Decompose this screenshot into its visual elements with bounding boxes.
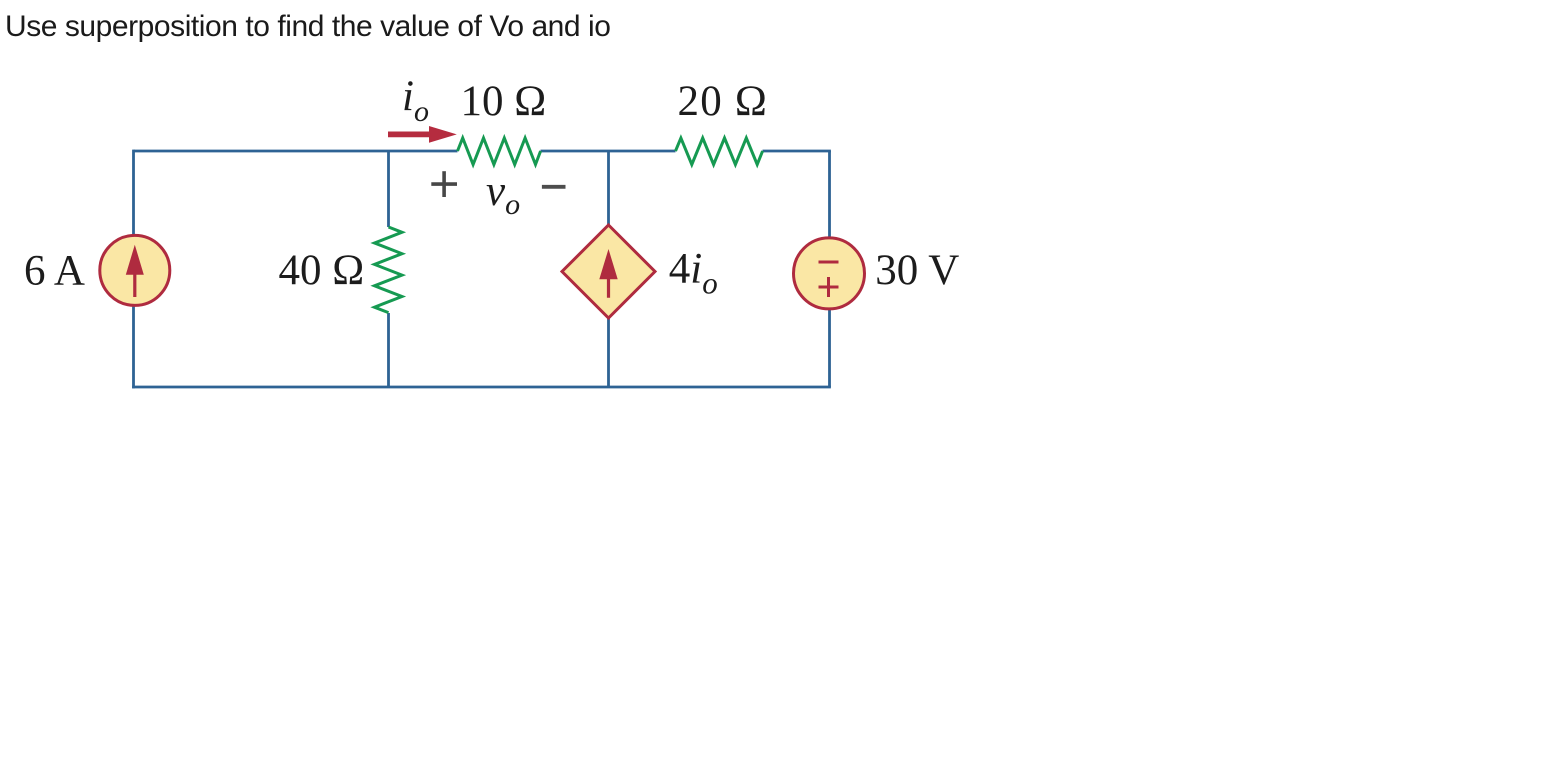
resistor 10 ohm zigzag [458, 138, 541, 165]
wire right branch [828, 151, 831, 387]
resistor 40 ohm zigzag [375, 227, 403, 313]
wire bottom [132, 386, 831, 389]
wire top-middle segment [541, 150, 676, 153]
voltage source 30 V (circle with minus over plus) [794, 238, 865, 309]
wire dependent-source branch [607, 151, 610, 387]
dependent source 4io (diamond with up arrow) [562, 225, 655, 318]
wire top-right segment [763, 150, 831, 153]
svg-text:io: io [402, 73, 429, 128]
svg-text:10 Ω: 10 Ω [461, 78, 547, 125]
svg-text:4io: 4io [669, 246, 718, 301]
wire 40-ohm branch upper lead [387, 151, 390, 227]
svg-text:6 A: 6 A [24, 248, 85, 295]
current arrow io [388, 126, 457, 143]
title text [5, 12, 611, 42]
resistor 20 ohm zigzag [676, 138, 763, 165]
svg-text:20 Ω: 20 Ω [678, 78, 769, 125]
current source 6 A (circle with up arrow) [100, 235, 170, 305]
wire top-left segment [134, 150, 458, 153]
svg-text:40 Ω: 40 Ω [279, 247, 365, 294]
wire left branch [132, 150, 135, 389]
label plus (vo) [431, 182, 457, 186]
svg-text:vo: vo [486, 168, 520, 221]
svg-text:30 V: 30 V [875, 247, 959, 294]
wire 40-ohm branch lower lead [387, 313, 390, 387]
label minus (vo) [542, 185, 566, 189]
